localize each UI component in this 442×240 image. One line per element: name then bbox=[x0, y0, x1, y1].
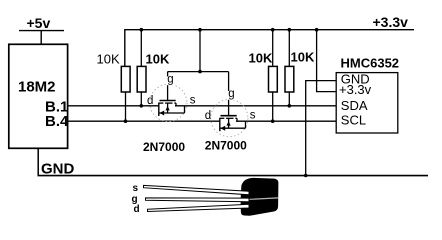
junction dot rail/gate riser bbox=[198, 28, 202, 32]
svg-text:d: d bbox=[134, 204, 140, 215]
junction dot GND rail/HMC GND bbox=[304, 174, 308, 178]
wire resistor R4 top stub bbox=[288, 30, 290, 67]
svg-text:GND: GND bbox=[41, 160, 75, 177]
lead s (TO-92) bbox=[144, 185, 250, 194]
wire Q2 source to SCL pin bbox=[236, 120, 337, 122]
pin GND (HMC6352) bbox=[306, 71, 370, 175]
svg-text:2N7000: 2N7000 bbox=[143, 140, 185, 154]
svg-text:10K: 10K bbox=[146, 52, 170, 67]
MOSFET Q2 2N7000 bbox=[205, 72, 256, 137]
svg-text:d: d bbox=[205, 110, 211, 122]
wire Q1 source to SDA pin bbox=[175, 105, 337, 107]
+3.3v rail bbox=[125, 14, 414, 66]
svg-text:s: s bbox=[190, 94, 196, 106]
wire B.4 line (SCL left segment) bbox=[68, 120, 221, 122]
svg-text:s: s bbox=[250, 110, 256, 122]
ground rail bbox=[38, 175, 429, 177]
resistor R1 10K bbox=[97, 52, 131, 122]
junction dot rail/R4 bbox=[288, 28, 292, 32]
wire resistor R2 top stub bbox=[140, 30, 142, 67]
junction dot R3/SCL line bbox=[271, 119, 275, 123]
junction dot R1/B.4 line bbox=[124, 119, 128, 123]
resistor R3 10K bbox=[249, 51, 278, 122]
svg-text:+5v: +5v bbox=[27, 15, 51, 31]
junction dot rail/R2 bbox=[140, 28, 144, 32]
module HMC6352 box bbox=[336, 56, 399, 133]
junction dot gate link bbox=[198, 70, 202, 74]
svg-text:+3.3v: +3.3v bbox=[373, 14, 409, 30]
TO-92 package body bbox=[240, 178, 278, 216]
wire B.1 line (SDA left segment) bbox=[68, 105, 160, 107]
junction dot R4/SDA line bbox=[288, 104, 292, 108]
svg-text:g: g bbox=[228, 88, 234, 100]
resistor R2 10K bbox=[137, 52, 170, 106]
power symbol +5v bbox=[19, 15, 64, 45]
svg-text:10K: 10K bbox=[97, 52, 120, 67]
svg-text:SCL: SCL bbox=[341, 113, 366, 128]
lead d (TO-92) bbox=[148, 204, 250, 211]
pin +3.3v (HMC6352) bbox=[317, 30, 372, 97]
wire gate link bbox=[168, 71, 229, 73]
IC 18M2 box bbox=[9, 44, 68, 148]
wire resistor R3 top stub bbox=[272, 30, 274, 67]
resistor R4 10K bbox=[285, 50, 315, 106]
wire gate riser to rail bbox=[199, 30, 201, 72]
svg-text:d: d bbox=[147, 95, 153, 107]
junction dot R2/B.1 line bbox=[140, 104, 144, 108]
svg-text:+3.3v: +3.3v bbox=[339, 82, 372, 97]
wire 18M2 GND drop bbox=[37, 148, 39, 176]
junction dot rail/+3.3v pin bbox=[315, 28, 319, 32]
svg-text:g: g bbox=[167, 73, 173, 85]
MOSFET Q1 2N7000 bbox=[147, 72, 196, 122]
junction dot rail/R3 bbox=[271, 28, 275, 32]
svg-text:2N7000: 2N7000 bbox=[205, 139, 247, 153]
svg-text:SDA: SDA bbox=[341, 98, 368, 113]
lead g (TO-92) bbox=[146, 198, 250, 202]
svg-text:B.4: B.4 bbox=[45, 113, 69, 130]
svg-text:10K: 10K bbox=[249, 51, 273, 66]
svg-text:18M2: 18M2 bbox=[18, 79, 56, 96]
svg-text:s: s bbox=[133, 183, 139, 194]
svg-text:10K: 10K bbox=[291, 50, 315, 65]
svg-text:HMC6352: HMC6352 bbox=[341, 56, 400, 71]
